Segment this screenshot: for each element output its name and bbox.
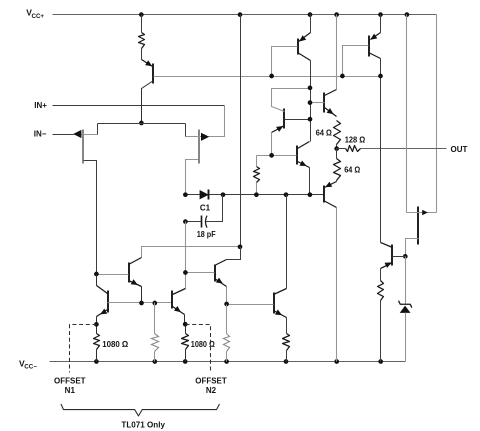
transistor Q7 base bbox=[186, 272, 215, 274]
wire R-top leads bbox=[141, 15, 143, 33]
svg-text:IN+: IN+ bbox=[34, 101, 47, 110]
wire cap line bbox=[186, 221, 202, 223]
resistor R3 64ohm lower bbox=[334, 159, 341, 181]
brace TL071-only bbox=[61, 404, 220, 416]
node base-rail right end bbox=[378, 74, 383, 79]
node offset N2 junction bbox=[183, 322, 188, 327]
node output star bbox=[334, 146, 339, 151]
node sources junction bbox=[139, 121, 144, 126]
node base-rail left bbox=[269, 74, 274, 79]
transistor Q2 base bbox=[343, 46, 369, 76]
wire diode line bbox=[186, 194, 200, 196]
transistor Q2 emitter bbox=[380, 15, 382, 33]
wire IN+ line bbox=[53, 105, 225, 107]
wire OUT line bbox=[361, 148, 447, 150]
transistor Q13 emitter bbox=[381, 263, 393, 269]
jfet J1 gate arrow bbox=[73, 130, 81, 138]
resistor R7 1080ohm right bbox=[182, 334, 189, 350]
transistor Q2 collector bbox=[369, 53, 381, 59]
svg-text:N2: N2 bbox=[206, 386, 217, 395]
svg-text:OUT: OUT bbox=[451, 145, 468, 154]
transistor Q13 base bbox=[393, 256, 406, 258]
svg-text:IN−: IN− bbox=[34, 129, 47, 138]
transistor Q4 emitter bbox=[298, 162, 310, 168]
svg-text:OFFSET: OFFSET bbox=[195, 376, 227, 385]
transistor Q4 base bbox=[257, 155, 297, 157]
wire mirror top line bbox=[142, 247, 241, 258]
transistor Q5 emitter bbox=[336, 181, 338, 182]
node base-rail mid bbox=[340, 74, 345, 79]
resistor R-out bbox=[283, 334, 290, 351]
jfet J2 drain corner bbox=[185, 124, 187, 137]
wire center column bbox=[240, 15, 242, 247]
diode D1 bbox=[200, 190, 209, 199]
transistor Q6 emitter bbox=[129, 281, 142, 287]
jfet J1 source bbox=[84, 161, 97, 275]
jfet J3 source bbox=[406, 239, 419, 257]
node Q11 base junction bbox=[224, 302, 229, 307]
jfet J2 gate arrow bbox=[201, 133, 209, 141]
jfet J1 bar bbox=[82, 130, 84, 164]
node Q6 base junction bbox=[94, 272, 99, 277]
capacitor C1 bbox=[201, 216, 203, 228]
wire zener column upper bbox=[405, 257, 407, 305]
transistor Q6 bar bbox=[128, 263, 130, 283]
node Q3 base junction bbox=[308, 117, 313, 122]
transistor Q14 bar bbox=[323, 93, 325, 113]
wire offset N1 dashed box bbox=[70, 325, 97, 373]
node mirror junctions bbox=[139, 301, 144, 306]
resistor R4 128ohm bbox=[346, 146, 361, 152]
resistor R1 bbox=[254, 167, 260, 183]
node Q3 emitter junction bbox=[269, 153, 274, 158]
wire zener column lower bbox=[405, 313, 407, 362]
transistor Q11 collector bbox=[274, 289, 287, 295]
transistor Q6 collector bbox=[129, 258, 142, 265]
svg-text:C1: C1 bbox=[200, 203, 211, 212]
wire R-q13 lead bbox=[380, 301, 382, 362]
wire J3 drain column bbox=[406, 15, 408, 213]
wire offset N2 dashed box bbox=[186, 325, 211, 373]
transistor Q3 base bbox=[285, 119, 311, 121]
transistor Q11 bar bbox=[273, 293, 275, 314]
wire R3 lead bbox=[336, 149, 338, 159]
transistor Q13 collector bbox=[381, 243, 393, 248]
transistor Q11 base bbox=[227, 304, 274, 306]
svg-text:N1: N1 bbox=[65, 386, 76, 395]
wire mirror base line left bbox=[108, 302, 173, 304]
svg-text:CC−: CC− bbox=[24, 364, 37, 371]
transistor Q1 base bbox=[272, 47, 298, 76]
node VCC- junctions bbox=[94, 359, 99, 364]
node center junction bbox=[238, 244, 243, 249]
svg-text:64 Ω: 64 Ω bbox=[316, 129, 333, 138]
wire R8 leads bbox=[226, 305, 228, 334]
node Q13 base junction bbox=[403, 254, 408, 259]
transistor Q14 base bbox=[311, 102, 325, 104]
transistor Q3 emitter bbox=[272, 126, 285, 133]
resistor R-q13 bbox=[378, 281, 384, 301]
transistor Q3 bar bbox=[283, 109, 285, 129]
wire VCC+ rail bbox=[53, 14, 437, 16]
transistor Q10 emitter bbox=[142, 60, 153, 67]
jfet J2 bar bbox=[198, 130, 200, 164]
jfet J1 drain corner bbox=[97, 124, 99, 135]
diode D2 zener bbox=[399, 301, 412, 308]
transistor Q2 bar bbox=[368, 36, 370, 57]
svg-text:OFFSET: OFFSET bbox=[54, 376, 86, 385]
jfet J3 gate wire bbox=[407, 212, 437, 214]
wire VCC+ right drop bbox=[436, 15, 438, 213]
svg-text:128 Ω: 128 Ω bbox=[345, 136, 366, 145]
transistor Q14 collector bbox=[325, 90, 337, 96]
transistor Q10 collector bbox=[142, 81, 154, 123]
svg-text:1080 Ω: 1080 Ω bbox=[102, 340, 129, 349]
jfet J3 gate arrow bbox=[422, 210, 428, 215]
transistor Q1 emitter bbox=[310, 15, 312, 33]
transistor Q1 bar bbox=[297, 39, 299, 55]
wire R7 leads bbox=[185, 325, 187, 334]
wire VCC- rail bbox=[50, 361, 406, 363]
node Q14 base junction bbox=[308, 100, 313, 105]
transistor Q4 collector bbox=[298, 142, 310, 149]
wire R6 leads bbox=[154, 303, 156, 334]
transistor Q3 collector bbox=[272, 89, 311, 112]
wire base rail y76 bbox=[154, 76, 381, 78]
transistor Q5 collector bbox=[324, 201, 337, 208]
node Q3 collector junction bbox=[308, 86, 313, 91]
svg-text:18 pF: 18 pF bbox=[197, 230, 216, 239]
svg-text:1080 Ω: 1080 Ω bbox=[191, 340, 216, 349]
resistor R8 mid-right bbox=[224, 334, 230, 352]
svg-text:CC+: CC+ bbox=[32, 13, 45, 20]
transistor Q8 emitter bbox=[97, 310, 108, 317]
transistor Q7 bar bbox=[214, 265, 216, 282]
transistor Q1 collector bbox=[298, 53, 311, 61]
transistor Q10 bar bbox=[152, 64, 154, 84]
resistor R6 mid-left bbox=[152, 334, 159, 352]
svg-text:TL071 Only: TL071 Only bbox=[121, 420, 165, 429]
wire R4 lead left bbox=[337, 148, 346, 150]
transistor Q7 collector bbox=[227, 247, 241, 260]
transistor Q8 collector bbox=[97, 286, 108, 294]
transistor Q13 bar bbox=[391, 245, 393, 266]
wire IN+ down to J2 gate bbox=[210, 106, 225, 137]
transistor Q5 bar bbox=[323, 186, 325, 203]
transistor Q4 bar bbox=[296, 146, 298, 165]
svg-text:64 Ω: 64 Ω bbox=[344, 165, 361, 174]
transistor Q7 emitter bbox=[215, 279, 227, 287]
resistor R2 64ohm upper bbox=[334, 121, 341, 145]
transistor Q9 collector bbox=[173, 289, 186, 295]
wire IN- line bbox=[53, 134, 74, 136]
resistor R-top bbox=[139, 33, 145, 49]
jfet J1 gate wire bbox=[74, 134, 98, 136]
wire R-out lead bbox=[286, 351, 288, 362]
node cap junction bbox=[183, 219, 188, 224]
wire R1 leads bbox=[256, 156, 258, 167]
transistor Q8 bar bbox=[107, 291, 109, 313]
node VCC+ junctions bbox=[139, 12, 144, 17]
node offset N1 junction bbox=[94, 322, 99, 327]
wire J2-drain column bbox=[185, 222, 187, 289]
wire R5 leads bbox=[96, 325, 98, 334]
resistor R5 1080ohm left bbox=[94, 334, 100, 350]
jfet J3 bar bbox=[417, 207, 419, 245]
node diode line junctions bbox=[183, 192, 188, 197]
wire R2 lead bbox=[336, 145, 338, 149]
transistor Q9 bar bbox=[171, 291, 173, 309]
wire sources line y123 bbox=[98, 123, 186, 125]
transistor Q9 emitter bbox=[173, 307, 185, 315]
jfet J2 source bbox=[186, 160, 199, 195]
transistor Q14 emitter bbox=[325, 108, 337, 117]
jfet J2 gate wire bbox=[186, 136, 210, 138]
node Q7 base junction bbox=[183, 270, 188, 275]
transistor Q6 base bbox=[97, 274, 129, 276]
transistor Q11 emitter bbox=[274, 311, 287, 318]
